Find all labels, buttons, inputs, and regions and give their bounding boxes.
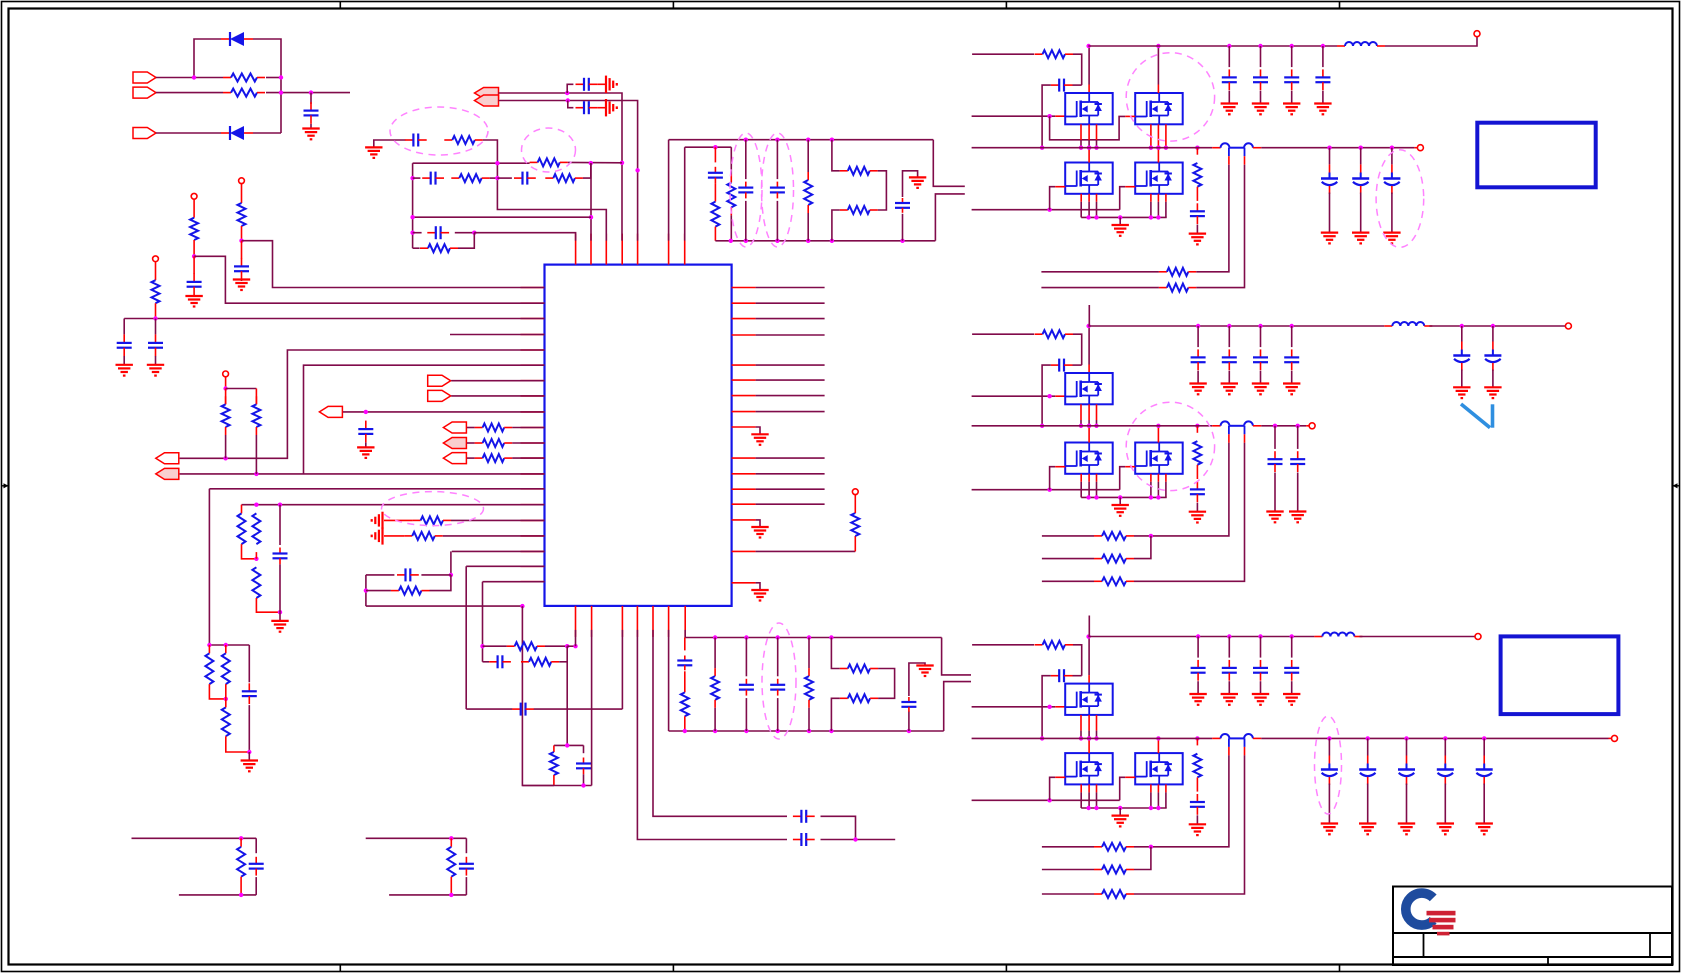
wire block1 topdrop (255, 838, 257, 853)
wire P1 ls2 pin (1165, 194, 1167, 202)
junction (1156, 146, 1160, 150)
wire chain777 b2 (777, 698, 779, 731)
capacitor C4 (117, 334, 132, 356)
junction (1366, 736, 1370, 740)
junction (775, 138, 779, 142)
U1 left pin y=303.2 (521, 302, 545, 304)
junction (566, 98, 570, 102)
junction (776, 635, 780, 639)
wire P3 hs1 gate stub (1055, 706, 1065, 708)
junction (1296, 424, 1300, 428)
resistor R3s3 (1094, 890, 1134, 898)
U1 left pin y=443.0 (521, 442, 545, 444)
wire pin622 drop (621, 630, 623, 709)
capacitor C1o3 (polarized) (1383, 165, 1400, 194)
U1 left pin y=411.9 (521, 411, 545, 413)
wire right pin row y=473.8 (756, 473, 825, 475)
wire P3 gnd bus (1081, 807, 1167, 809)
junction (239, 893, 243, 897)
junction (1327, 736, 1331, 740)
wire P1 ls1 pin (1080, 194, 1082, 202)
junction (223, 456, 227, 460)
wire P1 hs1 gate stub (1055, 115, 1065, 117)
capacitor CP2snub (1190, 481, 1205, 502)
wire P2 ls1 pin (1080, 474, 1082, 482)
wire right pin row y=318.6 (756, 318, 825, 320)
resistor R28 (840, 167, 878, 175)
transistor QP3L1 (1065, 753, 1113, 784)
wire J12 row (499, 93, 623, 241)
wire P2 row3 b (1134, 443, 1245, 582)
junction (806, 138, 810, 142)
U1 bottom pin x=668.6 (668, 606, 670, 637)
wire node up (194, 39, 221, 78)
wire P3 hs src pin (1096, 715, 1098, 731)
wire P3 outcap stub (1444, 738, 1446, 755)
wire P2 out red (1253, 425, 1261, 427)
wire P1 ls1 gate jog (1050, 187, 1056, 210)
capacitor C1 (304, 102, 319, 124)
wire s2L (878, 669, 895, 699)
border zone tick bottom 2 (672, 965, 674, 972)
resistor RP2snub (1193, 441, 1201, 465)
junction (1196, 324, 1200, 328)
wire (blue link) (1229, 425, 1244, 427)
wire pin684 up (684, 147, 686, 240)
port J6 (319, 406, 342, 417)
wire J13 row (499, 101, 638, 241)
wire chain809 b (808, 708, 810, 731)
junction (1040, 146, 1044, 150)
wire P1 boot elbow (1073, 54, 1082, 85)
ground (751, 434, 768, 445)
wire cap280 upper (279, 505, 281, 545)
resistor R34 (840, 694, 878, 702)
wire P1 hs src pin2 (1080, 140, 1082, 148)
junction (1149, 845, 1153, 849)
wire P1 hs2 src pin (1165, 124, 1167, 147)
wire row178 d (583, 163, 591, 178)
wire P1 gnd bus (1081, 216, 1167, 218)
wire right pin row y=411.6 (756, 411, 825, 413)
wire P1 senseB (1041, 287, 1159, 289)
wire P2 ls2 pin2 (1157, 482, 1159, 498)
junction (1149, 215, 1153, 219)
wire rail645 (209, 644, 249, 646)
wire block2 rdrop (450, 838, 452, 847)
wire P3 out red (1253, 737, 1261, 739)
resistor RP2boot (1035, 330, 1074, 338)
wire P1 ls1 pin (1096, 194, 1098, 202)
junction (589, 215, 593, 219)
wire P1 ls2 pin2 (1165, 202, 1167, 218)
wire block2 rdn (450, 877, 452, 895)
wire D2 right (253, 132, 281, 134)
junction (1149, 495, 1153, 499)
resistor RP3boot (1035, 641, 1074, 649)
wire P3 hs src pin (1088, 715, 1090, 731)
U1 left pin y=473.9 (521, 473, 545, 475)
wire P2 hs1 gate stub (1055, 395, 1065, 397)
U1 bottom pin x=637.4 (636, 606, 638, 637)
ground (1289, 512, 1306, 523)
wire P2 sw rail (972, 425, 1213, 427)
junction (247, 750, 251, 754)
ground (1283, 384, 1300, 395)
wire rc row2b (458, 233, 474, 249)
wire J7 (451, 380, 544, 382)
capacitor C3 (187, 273, 202, 295)
capacitor C17 (422, 172, 444, 185)
U1 top pin x=668.6 (668, 234, 670, 265)
junction (713, 145, 717, 149)
resistor R12 (252, 513, 260, 544)
wire pin575 drop (575, 630, 577, 646)
resistor R2s2 (1094, 555, 1134, 563)
wire rail785 (522, 785, 591, 787)
wire P3 vin riser (1088, 616, 1090, 637)
wire P1 hs2 gate jog (1050, 116, 1126, 140)
wire tp5 up (854, 495, 856, 513)
junction (495, 161, 499, 165)
diode D1 (221, 32, 253, 46)
wire P3 vincap stub (1228, 637, 1230, 658)
junction (1321, 44, 1325, 48)
border zone tick bottom 1 (339, 965, 341, 972)
wire gnd stub (248, 752, 250, 761)
U1 left pin y=520.4 (521, 519, 545, 521)
junction (1156, 736, 1160, 740)
wire P3 bus gnd stub (1119, 808, 1121, 816)
U1 right pin y=365.1 (732, 364, 756, 366)
annotation circle (1126, 402, 1214, 490)
wire P3 ls1 pin (1080, 784, 1082, 792)
capacitor CP2boot (1051, 359, 1073, 372)
wire P2 vincap stub (1228, 326, 1230, 347)
capacitor C24 (677, 656, 692, 671)
ground (rotated) (372, 527, 383, 544)
wire P2 snub b (1196, 465, 1198, 479)
junction (1156, 146, 1160, 150)
wire riser PL2 (304, 365, 545, 474)
wire s3L (831, 698, 839, 731)
resistor R3s1 (1094, 843, 1134, 851)
wire P1 hs src pin2 (1096, 140, 1098, 148)
wire chain746 b (745, 698, 747, 731)
wire P1 vincap dn (1260, 91, 1262, 104)
wire P3 ls2 pin (1165, 784, 1167, 792)
wire cap branch (123, 319, 125, 335)
resistor R31 (711, 668, 719, 708)
ground (233, 280, 250, 291)
wire pin519 gnd (756, 520, 760, 527)
junction (472, 231, 476, 235)
capacitor C2 (234, 258, 249, 280)
wire block2 topdrop (465, 838, 467, 853)
U1 top pin x=575.6 (575, 234, 577, 265)
U1 left pin y=566.3 (521, 565, 545, 567)
wire block2 top (366, 837, 467, 839)
wire P1 vincap stub (1322, 46, 1324, 67)
wire P2 gnd bus (1081, 496, 1167, 498)
wire cap to gnd (597, 83, 606, 85)
junction (744, 729, 748, 733)
wire pin582 gnd (756, 583, 760, 590)
wire C6 gnd (365, 443, 367, 448)
capacitor C15 (576, 101, 598, 114)
wire left drop (365, 575, 367, 606)
U1 left pin y=504.7 (521, 504, 545, 506)
junction (1227, 634, 1231, 638)
transistor QP2H1 (1065, 373, 1113, 404)
U1 right pin y=473.8 (732, 473, 756, 475)
resistor R36 (237, 847, 245, 877)
resistor R40 (205, 653, 213, 684)
wire right pin row y=335.0 (756, 334, 825, 336)
resistor R3 (238, 203, 246, 226)
wire P1 hs src pin (1080, 124, 1082, 140)
wire J5 row (180, 473, 545, 475)
resistor R17 (507, 642, 545, 650)
border mid arrow left (2, 483, 9, 488)
junction (620, 161, 624, 165)
junction (907, 729, 911, 733)
ground (1283, 104, 1300, 115)
resistor R18 (521, 658, 559, 666)
wire row163b (568, 161, 622, 163)
resistor R16 (391, 587, 430, 595)
wire pin668 dn (668, 630, 670, 731)
ground (751, 527, 768, 538)
wire (sense leg) (1244, 148, 1246, 157)
wire c to rail (583, 774, 585, 785)
junction (1327, 146, 1331, 150)
wire P2 leg2 red (1244, 434, 1246, 443)
wire P1 ls2 pin (1157, 194, 1159, 202)
capacitor C13 (793, 833, 815, 846)
junction (853, 837, 857, 841)
wire chain684 b (684, 671, 686, 692)
wire P1 snub a (1196, 148, 1198, 155)
ground (147, 365, 164, 376)
wire P1 hs gate row (972, 115, 1056, 117)
wire P2 row3 (1042, 580, 1094, 582)
wire P3 leg1 red (1228, 747, 1230, 756)
wire block1 cdn (255, 877, 257, 895)
junction (1087, 424, 1091, 428)
ground (1476, 824, 1493, 835)
wire P2 hs src pin2 (1080, 420, 1082, 426)
port P3OUT (1612, 735, 1618, 741)
wire P3 outcap dn (1406, 784, 1408, 824)
capacitor C25 (739, 679, 754, 696)
wire rail147 (685, 146, 732, 148)
ground (909, 177, 926, 188)
junction (776, 729, 780, 733)
wire J1 to node (156, 77, 194, 79)
wire R2 to node (266, 92, 350, 94)
wire P3 ls gate row (972, 799, 1120, 801)
wire P1 sw red (1212, 147, 1220, 149)
junction (1087, 146, 1091, 150)
capacitor C27 (901, 697, 916, 712)
wire P2 leg1 red (1228, 434, 1230, 443)
wire R3 down (241, 226, 243, 241)
U1 bottom pin x=591.6 (591, 606, 593, 637)
wire P2 outcap stub (1274, 426, 1276, 449)
capacitor C23 (895, 198, 910, 213)
annotation ellipse (382, 492, 484, 526)
junction (449, 893, 453, 897)
test point TP1 (153, 256, 159, 262)
wire P3 snub b (1196, 777, 1198, 791)
test point TP3 (239, 178, 245, 184)
junction (1086, 806, 1090, 810)
wire P2 ls gate row (972, 489, 1120, 491)
port J11 (443, 453, 466, 464)
wire pin653 row (653, 630, 787, 816)
wire P3 row1 b (1134, 755, 1229, 846)
resistor R22 (451, 174, 489, 182)
junction (1290, 634, 1294, 638)
capacitor C11 (512, 703, 534, 716)
wire chain777 (776, 140, 778, 179)
wire row178 c (497, 177, 512, 179)
capacitor C3v1 (1191, 660, 1206, 681)
U1 bottom pin x=622.4 (621, 606, 623, 637)
capacitor C3o (polarized) (1476, 756, 1493, 785)
ground (1484, 387, 1501, 398)
wire P1 hs2 gate stub (1125, 115, 1135, 117)
annotation ellipse (522, 128, 576, 172)
wire P1 ls gate row (972, 209, 1120, 211)
wire chain684 a (684, 638, 686, 651)
capacitor C18 (514, 172, 536, 185)
ground (1398, 824, 1415, 835)
wire P2 ls2 pin (1157, 474, 1159, 482)
wire P3 vin drain red (1088, 675, 1090, 684)
wire s3 (832, 210, 840, 241)
wire to riser (242, 241, 545, 288)
wire block1 rdn (240, 877, 242, 895)
junction (565, 743, 569, 747)
junction (806, 239, 810, 243)
capacitor C8 (397, 568, 419, 581)
wire stub up (933, 140, 965, 187)
U1 left pin y=287.5 (521, 287, 545, 289)
wire P3 outcap stub (1406, 738, 1408, 755)
resistor R41 (222, 653, 230, 684)
junction (153, 316, 157, 320)
wire chain808 b (807, 213, 809, 241)
junction (278, 610, 282, 614)
wire P1 outcap stub (1360, 148, 1362, 165)
wire drop522 (522, 606, 554, 785)
wire right pin row y=365.1 (756, 364, 825, 366)
ground (365, 147, 382, 158)
resistor RP1snub (1193, 163, 1201, 187)
wire r590 left (366, 590, 391, 592)
wire right pin row y=458.1 (756, 457, 825, 459)
wire P2 vin drain (1087, 326, 1090, 365)
annotation circle (1126, 53, 1214, 141)
transistor QP3L2 (1135, 753, 1183, 784)
resistor R15 (404, 532, 443, 540)
wire P3 snub a (1196, 738, 1198, 745)
wire P2 outcap dn (1274, 473, 1276, 512)
wire P3 ls2 pin2 (1157, 792, 1159, 808)
wire chain745 (745, 140, 747, 179)
junction (1040, 736, 1044, 740)
inductor L3 (1314, 633, 1362, 637)
junction (830, 239, 834, 243)
wire R14 to U1 (451, 519, 545, 521)
wire pin668 up (668, 140, 670, 241)
wire (sense leg) (1228, 738, 1230, 747)
ground (rotated) (372, 512, 383, 529)
wire row709 b (534, 708, 623, 710)
title block row2 divider 1 (1423, 933, 1425, 957)
wire chain715L b (714, 708, 716, 731)
wire P3 hs src pin2 (1088, 731, 1090, 739)
wire P1 hs2 src pin (1157, 124, 1159, 147)
wire P2 vincap dn (1228, 371, 1230, 384)
wire P3 ls1 pin2 (1080, 792, 1082, 808)
capacitor C2v4 (1284, 349, 1299, 370)
junction (207, 643, 211, 647)
wire P1 bus gnd stub (1119, 217, 1121, 225)
junction (1390, 146, 1394, 150)
resistor R1 (223, 74, 265, 82)
wire R13 elbow (256, 598, 280, 612)
wire r590 right (430, 575, 451, 591)
wire P3 ls1 gate jog (1050, 777, 1056, 800)
capacitor C2v1 (1191, 349, 1206, 370)
resistor R5 (152, 280, 160, 303)
junction (1164, 146, 1168, 150)
wire P2 hs src pin (1096, 404, 1098, 420)
wire block2 bottom (389, 894, 466, 896)
junction (829, 635, 833, 639)
wire P1 vincap dn (1291, 91, 1293, 104)
wire pin685 dn (684, 630, 686, 638)
inductor LP3a (1221, 734, 1230, 738)
port P2VIN (1565, 323, 1571, 329)
diode D2 (221, 126, 253, 140)
capacitor CP3snub (1190, 794, 1205, 815)
wire J8 (451, 395, 544, 397)
wire s1L (831, 638, 839, 669)
junction (1094, 146, 1098, 150)
ground (1252, 384, 1269, 395)
capacitor C1v2 (1253, 69, 1268, 90)
junction (1460, 324, 1464, 328)
capacitor C3v4 (1284, 660, 1299, 681)
wire P2 ls1 pin2 (1080, 482, 1082, 498)
resistor R32 (805, 668, 813, 708)
ground (rotated) (606, 99, 617, 116)
wire P1 vincap dn (1228, 91, 1230, 104)
capacitor C20 (708, 167, 723, 184)
wire P3 ls2 pin2 (1150, 792, 1152, 808)
wire P2 ls1 gate stub (1055, 466, 1065, 468)
wire P1 ls2 gate jog (1120, 187, 1126, 210)
junction (589, 161, 593, 165)
wire r226 dn (225, 684, 227, 699)
wire P3 vincap stub (1260, 637, 1262, 658)
capacitor CP1snub (1190, 203, 1205, 224)
company logo (1406, 893, 1456, 935)
